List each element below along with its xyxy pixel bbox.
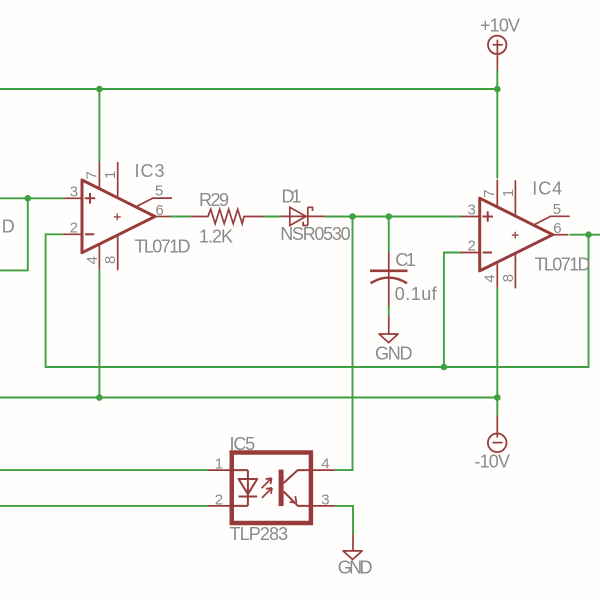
label D1 value NSR0530 (280, 224, 351, 244)
ground GND under C1 (379, 317, 398, 343)
wire IC5 pin3 to GND (335, 506, 353, 534)
wire C1 bottom to GND (388, 306, 390, 317)
pin number IC5.2 (215, 492, 223, 509)
wire +10V top rail (0, 88, 497, 90)
node junction feedback at IC4 pin2 (441, 364, 448, 371)
svg-text:7: 7 (84, 171, 101, 179)
label IC4 value TL071D (535, 255, 591, 275)
label partial D of off-screen op-amp (2, 216, 15, 236)
svg-text:2: 2 (215, 492, 223, 509)
wire IC3 pin3 input net (0, 198, 63, 270)
wire IC4 output net (570, 234, 600, 236)
label IC5 (230, 434, 256, 454)
wire IC5 pin1 input (0, 469, 208, 471)
svg-text:4: 4 (482, 274, 499, 282)
svg-text:IC5: IC5 (230, 434, 256, 454)
supply -10V (488, 416, 507, 453)
pin number IC3.8 (102, 256, 119, 264)
pin number IC4.3 (468, 202, 476, 219)
svg-text:0.1uf: 0.1uf (395, 284, 438, 304)
label IC3 (135, 161, 165, 181)
svg-text:R29: R29 (199, 190, 229, 210)
node junction input net (25, 195, 32, 202)
svg-text:+10V: +10V (480, 16, 520, 36)
svg-text:D: D (2, 216, 15, 236)
label C1 value 0.1uf (395, 284, 438, 304)
label R29 (199, 190, 229, 210)
wire IC4 pin4 to bottom rail (496, 288, 498, 398)
node junction bottom rail at -10V (494, 394, 501, 401)
light arrows inside IC5 (262, 478, 272, 498)
wire IC3 pin4 to bottom rail (98, 270, 100, 398)
svg-text:8: 8 (500, 274, 517, 282)
label GND under IC5 (338, 558, 373, 578)
svg-text:1.2K: 1.2K (199, 227, 233, 247)
phototransistor inside IC5 (279, 470, 311, 507)
node junction IC4 output (585, 231, 592, 238)
pin number IC3.1 (102, 171, 119, 179)
node junction bottom rail at IC3 (96, 394, 103, 401)
pin number IC3.7 (84, 171, 101, 179)
node junction top rail at IC3 (96, 86, 103, 93)
supply +10V (488, 36, 506, 71)
pin number IC3.6 (156, 202, 164, 219)
label -10V (474, 452, 510, 472)
label GND under C1 (375, 344, 413, 364)
svg-text:1: 1 (215, 456, 223, 473)
pin number IC5.4 (321, 456, 329, 473)
svg-text:IC3: IC3 (135, 161, 165, 181)
pin number IC5.3 (321, 492, 329, 509)
label IC5 value TLP283 (230, 524, 289, 544)
node junction signal at x=352 (349, 213, 356, 220)
label +10V (480, 16, 520, 36)
svg-text:2: 2 (468, 238, 476, 255)
pin number IC4.5 (553, 201, 561, 218)
svg-text:4: 4 (84, 256, 101, 264)
diode D1 schottky (281, 207, 325, 225)
svg-text:7: 7 (481, 189, 498, 197)
svg-text:5: 5 (553, 201, 561, 218)
wire IC3 pin7 to top rail (98, 89, 100, 162)
capacitor C1 (370, 252, 408, 306)
svg-text:3: 3 (321, 492, 329, 509)
op-amp IC4 (460, 180, 569, 289)
svg-text:3: 3 (468, 202, 476, 219)
svg-text:8: 8 (102, 256, 119, 264)
pin number IC4.4 (482, 274, 499, 282)
wire IC4 pin7 to top rail (496, 71, 498, 179)
svg-text:-10V: -10V (474, 452, 510, 472)
label IC4 (532, 178, 562, 198)
svg-text:NSR0530: NSR0530 (280, 224, 351, 244)
pin number IC5.1 (215, 456, 223, 473)
pin number IC4.6 (553, 220, 561, 237)
svg-text:TLP283: TLP283 (230, 524, 289, 544)
svg-text:3: 3 (70, 183, 78, 200)
wire IC5 pin2 input (0, 505, 208, 507)
svg-text:GND: GND (338, 558, 373, 578)
wire IC3 output to R29 (171, 216, 191, 218)
label C1 (395, 250, 416, 270)
LED inside IC5 (232, 470, 257, 506)
wire signal down to IC5 pin4 (335, 217, 353, 471)
svg-text:2: 2 (70, 219, 78, 236)
pin number IC3.4 (84, 256, 101, 264)
node junction top rail at +10V (494, 86, 501, 93)
wire D1 to IC4 pin3 (325, 216, 461, 218)
wire IC3 pin2 feedback net (46, 234, 589, 367)
svg-text:TL071D: TL071D (135, 236, 191, 256)
wire IC4 pin2 branch (444, 253, 462, 368)
label IC3 value TL071D (135, 236, 191, 256)
pin number IC3.5 (155, 183, 163, 200)
wire -10V stub (496, 398, 498, 416)
wire -10V bottom rail (0, 397, 497, 399)
svg-text:D1: D1 (282, 186, 302, 206)
op-amp IC3 (63, 162, 172, 271)
pin number IC3.3 (70, 183, 78, 200)
pin number IC4.8 (500, 274, 517, 282)
node junction signal at C1 (385, 213, 392, 220)
resistor R29 (191, 209, 264, 223)
label D1 (282, 186, 302, 206)
svg-text:6: 6 (553, 220, 561, 237)
pin number IC4.7 (481, 189, 498, 197)
optocoupler IC5 (208, 453, 335, 524)
svg-text:IC4: IC4 (532, 178, 562, 198)
svg-text:6: 6 (156, 202, 164, 219)
pin number IC4.1 (500, 189, 517, 197)
svg-text:TL071D: TL071D (535, 255, 591, 275)
svg-text:C1: C1 (395, 250, 416, 270)
svg-text:4: 4 (321, 456, 329, 473)
wire R29 to D1 (264, 216, 281, 218)
svg-text:1: 1 (102, 171, 119, 179)
label R29 value 1.2K (199, 227, 233, 247)
svg-text:5: 5 (155, 183, 163, 200)
pin number IC4.2 (468, 238, 476, 255)
wire C1 top lead (388, 217, 390, 253)
svg-text:GND: GND (375, 344, 413, 364)
pin number IC3.2 (70, 219, 78, 236)
ground GND under IC5 (343, 534, 362, 559)
svg-text:1: 1 (500, 189, 517, 197)
